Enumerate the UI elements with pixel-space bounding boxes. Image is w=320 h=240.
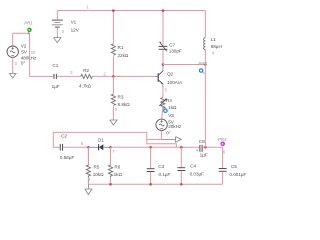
wire C7 to collector node	[162, 50, 164, 65]
svg-text:C1: C1	[52, 63, 58, 68]
svg-text:0°: 0°	[166, 131, 171, 136]
wire V3 bottom stub	[147, 131, 162, 140]
junction C4 top	[180, 146, 183, 149]
wire node2 down to R3	[112, 76, 114, 94]
svg-text:5: 5	[165, 88, 168, 93]
svg-text:C8: C8	[199, 139, 205, 144]
battery V1	[52, 20, 80, 33]
svg-text:0: 0	[115, 107, 118, 112]
probe PR2	[198, 61, 207, 74]
wire V1 top stub	[56, 11, 58, 20]
wire top rail net 1	[57, 10, 205, 12]
junction bottom C3	[149, 183, 152, 186]
capacitor C5	[219, 164, 247, 177]
wire C4 column	[180, 147, 182, 167]
svg-text:R2: R2	[83, 68, 89, 73]
svg-text:C5: C5	[231, 164, 237, 169]
junction R6 top	[109, 146, 112, 149]
resistor R2	[79, 68, 92, 88]
wire nub at probe	[28, 33, 30, 34]
wire C1 to R2	[57, 75, 81, 77]
variable capacitor C7	[159, 42, 182, 54]
svg-text:1kΩ: 1kΩ	[114, 172, 123, 177]
svg-text:C4: C4	[190, 164, 196, 169]
wire R3 to ground	[112, 106, 114, 120]
transistor Q2	[155, 65, 183, 87]
svg-text:0: 0	[62, 29, 65, 34]
wire collector line to L1 column	[163, 64, 205, 66]
wire V2 bottom stub	[12, 57, 14, 71]
svg-text:1µF: 1µF	[52, 84, 60, 89]
svg-text:130pF: 130pF	[169, 48, 182, 53]
svg-text:3: 3	[70, 70, 73, 75]
svg-text:5V: 5V	[21, 50, 28, 55]
svg-text:10kΩ: 10kΩ	[93, 172, 104, 177]
ground under V2	[9, 71, 16, 78]
wire C3 bottom	[150, 172, 152, 184]
svg-text:R3: R3	[118, 95, 124, 100]
svg-text:PR4: PR4	[218, 137, 227, 142]
svg-text:8.8kΩ: 8.8kΩ	[118, 102, 131, 107]
svg-text:R5: R5	[94, 164, 100, 169]
wire L1 down to C8 rail	[204, 50, 206, 148]
variable resistor R4	[159, 98, 177, 110]
wire mid rail to C8	[111, 146, 200, 148]
wire R1 to node 2	[112, 56, 114, 76]
svg-text:22kΩ: 22kΩ	[118, 53, 129, 58]
svg-text:98µH: 98µH	[211, 44, 222, 49]
svg-text:0.03µF: 0.03µF	[190, 171, 205, 176]
wire R1 column from top rail	[112, 11, 114, 44]
svg-text:C3: C3	[158, 164, 164, 169]
wire long left net	[53, 132, 147, 147]
svg-text:V2: V2	[21, 44, 27, 49]
svg-text:1: 1	[87, 4, 90, 9]
ground right of V3	[162, 137, 182, 143]
wire V2 top to PR1 corner	[13, 33, 29, 46]
ground under R3	[110, 120, 117, 125]
wire C8 to PR4 corner	[202, 146, 222, 148]
svg-text:PR2: PR2	[198, 61, 207, 66]
wire L1 top stub	[204, 11, 206, 38]
wire C4 bottom	[180, 171, 182, 184]
wire jog to lower rail	[147, 139, 177, 147]
svg-text:0.56µF: 0.56µF	[60, 155, 75, 160]
wire R5/R6 columns pink overlay	[88, 147, 110, 184]
wire bottom rail	[88, 183, 222, 185]
wire PR1 node down and base line left part	[30, 33, 54, 76]
svg-text:0.001µF: 0.001µF	[229, 172, 246, 177]
svg-text:+: +	[196, 148, 199, 153]
junction R5 top	[87, 146, 90, 149]
capacitor C8 polarized	[196, 139, 208, 158]
resistor R3	[111, 94, 130, 107]
wire emitter to R4	[162, 87, 164, 98]
svg-text:R6: R6	[114, 164, 120, 169]
svg-text:0°: 0°	[21, 60, 26, 65]
svg-text:4: 4	[212, 51, 215, 56]
wire R2 to node 2 to Q2 base	[92, 75, 154, 77]
probe PR3	[163, 108, 168, 113]
wire C7 column from top rail	[162, 11, 164, 47]
resistor R6	[108, 147, 122, 184]
junction collector node	[162, 63, 165, 66]
svg-text:V3: V3	[168, 113, 174, 118]
AC source V3	[156, 113, 182, 135]
probe PR1	[24, 21, 33, 33]
junction bottom R6	[109, 183, 112, 186]
svg-text:L1: L1	[211, 37, 217, 42]
svg-text:0: 0	[15, 61, 18, 66]
svg-text:V1: V1	[71, 20, 77, 25]
svg-text:6: 6	[223, 150, 226, 155]
svg-text:R4: R4	[166, 98, 172, 103]
capacitor C2	[60, 134, 75, 160]
inductor L1	[204, 37, 222, 50]
resistor R5	[86, 147, 104, 184]
ground bottom left	[85, 184, 92, 194]
svg-text:12V: 12V	[71, 28, 80, 33]
svg-text:4.7kΩ: 4.7kΩ	[79, 83, 92, 88]
svg-text:D1: D1	[98, 138, 104, 143]
junction top rail C7	[162, 9, 165, 12]
svg-text:10: 10	[31, 50, 36, 55]
junction L1 column bottom	[204, 146, 207, 149]
junction node 2	[112, 75, 115, 78]
wire C5 bottom	[222, 172, 224, 185]
svg-text:20kHz: 20kHz	[168, 124, 182, 129]
capacitor C1	[52, 63, 60, 89]
wire PR4 corner down to C5	[222, 147, 224, 168]
wire V1 bottom stub	[56, 28, 58, 36]
junction collector at L1 column	[204, 63, 207, 66]
AC source V2	[7, 44, 37, 66]
svg-text:1kΩ: 1kΩ	[168, 105, 177, 110]
svg-text:2: 2	[103, 71, 106, 76]
svg-text:C7: C7	[169, 43, 175, 48]
svg-text:1µF: 1µF	[200, 153, 208, 158]
svg-text:100A/A: 100A/A	[167, 80, 183, 85]
wire C2 to R5 node	[63, 146, 89, 148]
svg-text:8: 8	[81, 141, 84, 146]
svg-text:0.1µF: 0.1µF	[159, 172, 171, 177]
wire R4 to V3	[162, 106, 163, 119]
svg-text:PR1: PR1	[24, 21, 33, 26]
probe PR4	[218, 137, 227, 146]
svg-text:R1: R1	[118, 45, 124, 50]
svg-text:Q2: Q2	[167, 72, 174, 77]
resistor R1	[111, 44, 129, 58]
svg-text:C2: C2	[61, 134, 67, 139]
wire C3 column	[150, 147, 152, 168]
diode D1	[88, 138, 110, 151]
junction top rail R1	[112, 9, 115, 12]
capacitor C4	[177, 164, 204, 177]
svg-text:7: 7	[112, 149, 115, 154]
capacitor C3	[147, 164, 171, 177]
junction bottom C4	[180, 183, 183, 186]
ground under V1	[54, 35, 61, 42]
junction C3 top	[149, 146, 152, 149]
